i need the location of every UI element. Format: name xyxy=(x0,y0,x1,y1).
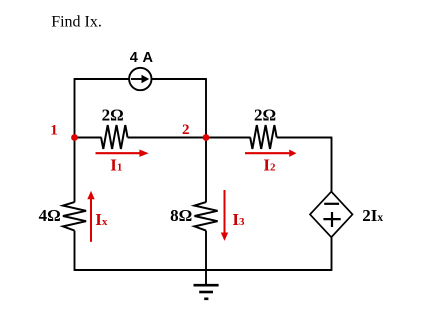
wire: resistor R4 down to bottom wire xyxy=(205,231,207,270)
minus sign inside diamond xyxy=(324,203,339,205)
resistor R1: 2 ohm horizontal between node 1 and node 2 xyxy=(101,125,128,149)
svg-text:4Ω: 4Ω xyxy=(39,206,61,225)
svg-text:I1: I1 xyxy=(110,156,122,175)
node 1 (red dot) xyxy=(71,134,78,141)
svg-text:2Ix: 2Ix xyxy=(362,206,383,225)
current arrow I2 xyxy=(245,152,289,154)
resistor R4: 8 ohm vertical middle branch xyxy=(195,202,218,231)
dependent source: diamond 2Ix xyxy=(310,192,353,238)
wire: left vertical upper (top-left corner down to node 1) xyxy=(74,78,76,137)
current arrow I3 (downward) xyxy=(224,190,226,234)
current arrow I1 xyxy=(96,152,141,154)
plus sign inside diamond xyxy=(323,218,340,220)
wire: resistor R1 to node 2 xyxy=(128,137,206,139)
wire: node1 down to resistor R3 xyxy=(74,138,76,203)
svg-text:Ix: Ix xyxy=(95,210,108,229)
node 2 (red dot) xyxy=(203,134,210,141)
wire: resistor R3 to bottom-left corner xyxy=(74,231,76,271)
current arrow Ix (upward) xyxy=(90,199,92,242)
wire: right vertical of top loop (top-right corner down to node 2) xyxy=(205,78,207,137)
svg-text:8Ω: 8Ω xyxy=(170,206,192,225)
svg-text:2Ω: 2Ω xyxy=(102,105,124,124)
wire: node1 to resistor R1 xyxy=(75,137,102,139)
svg-text:2: 2 xyxy=(182,122,190,138)
svg-text:1: 1 xyxy=(50,123,58,139)
svg-text:I3: I3 xyxy=(232,210,245,229)
resistor R2: 2 ohm horizontal right of node 2 xyxy=(250,125,277,149)
wire: right vertical down to dependent source xyxy=(331,137,333,192)
wire: bottom horizontal xyxy=(75,269,332,271)
wire: dependent source bottom to bottom-right corner xyxy=(331,237,333,271)
wire: ground stub below bottom wire xyxy=(205,270,207,285)
wire: resistor R2 to right branch corner xyxy=(277,137,332,139)
resistor R3: 4 ohm vertical left branch xyxy=(63,202,86,231)
ground xyxy=(194,284,219,287)
current source U1: 4 A circle with right arrow xyxy=(129,68,151,90)
wire: top horizontal (node1 top to node2 top) xyxy=(75,78,207,80)
wire: node2 down to resistor R4 xyxy=(205,138,207,203)
wire: node2 to resistor R2 xyxy=(206,137,251,139)
svg-text:4 A: 4 A xyxy=(130,50,154,66)
svg-text:I2: I2 xyxy=(263,156,276,175)
svg-text:Find Ix.: Find Ix. xyxy=(51,14,102,31)
svg-text:2Ω: 2Ω xyxy=(254,105,276,124)
